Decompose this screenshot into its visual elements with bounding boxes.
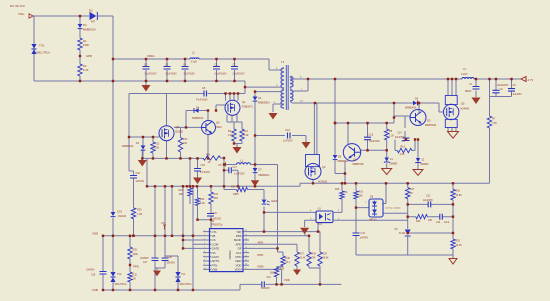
svg-text:APD: APD: [258, 240, 264, 244]
svg-text:40.2K: 40.2K: [456, 244, 463, 247]
svg-text:10: 10: [204, 268, 206, 270]
svg-text:R14: R14: [206, 154, 211, 157]
svg-text:C16: C16: [201, 164, 206, 167]
svg-text:VIN+: VIN+: [18, 12, 25, 16]
svg-text:TV1: TV1: [39, 44, 45, 48]
svg-text:C18: C18: [136, 172, 141, 175]
svg-text:2.2uF/100V: 2.2uF/100V: [233, 73, 245, 75]
svg-text:SMCJ75CA: SMCJ75CA: [180, 283, 192, 286]
svg-text:2.2uF/25V: 2.2uF/25V: [511, 94, 522, 96]
svg-text:10K: 10K: [359, 195, 364, 198]
svg-text:104/50V: 104/50V: [167, 263, 176, 265]
svg-text:C24: C24: [436, 222, 441, 224]
svg-text:R13: R13: [183, 138, 188, 141]
svg-text:63.4: 63.4: [286, 262, 291, 264]
svg-text:104/50V: 104/50V: [86, 270, 95, 272]
svg-text:R17: R17: [410, 188, 415, 191]
svg-text:D1: D1: [89, 9, 93, 13]
svg-text:C26: C26: [91, 275, 96, 277]
svg-text:100K: 100K: [83, 43, 89, 47]
svg-text:3.3uH: 3.3uH: [191, 61, 198, 64]
svg-text:R32: R32: [133, 274, 138, 277]
svg-text:3904: 3904: [216, 126, 222, 129]
svg-text:22uF/100V: 22uF/100V: [184, 73, 196, 75]
svg-text:15: 15: [245, 251, 247, 253]
svg-text:Q2: Q2: [322, 165, 326, 169]
svg-text:R13: R13: [401, 145, 406, 148]
svg-text:SMCJ79CA: SMCJ79CA: [36, 51, 50, 55]
svg-text:SMCJ75CA: SMCJ75CA: [115, 283, 127, 286]
svg-text:1uF/16V: 1uF/16V: [136, 181, 145, 183]
svg-text:0.4R: 0.4R: [228, 135, 233, 137]
svg-text:MMBD914: MMBD914: [83, 28, 96, 32]
svg-text:MMBD914: MMBD914: [405, 107, 417, 110]
svg-text:MMBD914: MMBD914: [259, 175, 271, 177]
svg-text:75K: 75K: [312, 258, 317, 260]
svg-text:Q5: Q5: [461, 102, 465, 106]
svg-text:0.1uF/100V: 0.1uF/100V: [145, 73, 157, 75]
svg-text:Q3: Q3: [176, 125, 180, 129]
svg-text:R21: R21: [179, 189, 184, 192]
svg-text:ABS10: ABS10: [369, 219, 377, 222]
svg-text:0.1uF/25V: 0.1uF/25V: [234, 174, 245, 176]
svg-text:R1: R1: [83, 39, 87, 43]
svg-text:C15: C15: [369, 134, 374, 137]
svg-text:10R: 10R: [179, 193, 184, 196]
svg-text:2K: 2K: [410, 192, 413, 195]
svg-text:1: 1: [204, 230, 205, 232]
svg-text:TP8237Sd: TP8237Sd: [211, 223, 223, 226]
svg-text:T1: T1: [281, 60, 285, 64]
svg-text:104/50V: 104/50V: [140, 258, 149, 260]
svg-text:R33: R33: [280, 268, 285, 271]
svg-text:AO4030: AO4030: [318, 181, 328, 184]
svg-text:SI2302: SI2302: [175, 131, 184, 134]
svg-text:63.4K: 63.4K: [300, 258, 306, 260]
svg-text:VSB: VSB: [92, 288, 98, 292]
svg-text:VSB: VSB: [212, 268, 218, 272]
svg-text:C21: C21: [267, 277, 272, 279]
svg-text:R28: R28: [312, 253, 317, 256]
svg-text:R29: R29: [323, 253, 328, 256]
svg-text:ZMM62: ZMM62: [390, 164, 399, 166]
svg-text:MMBD914: MMBD914: [258, 102, 270, 105]
svg-text:VC: VC: [218, 163, 222, 167]
svg-text:6.2K: 6.2K: [83, 68, 89, 72]
svg-text:VDD: VDD: [284, 278, 290, 282]
svg-text:VDDi: VDDi: [257, 264, 264, 268]
svg-text:680uF: 680uF: [465, 91, 472, 93]
svg-text:8: 8: [204, 260, 205, 262]
svg-text:VDDI: VDDI: [235, 268, 242, 272]
svg-text:VDDx: VDDx: [147, 54, 155, 58]
svg-text:R20: R20: [231, 186, 236, 189]
svg-text:0.4R: 0.4R: [244, 135, 249, 137]
svg-text:1.5K: 1.5K: [200, 202, 205, 205]
svg-text:2: 2: [204, 234, 205, 236]
svg-text:MMBD914: MMBD914: [192, 117, 204, 120]
svg-text:TL431: TL431: [399, 232, 406, 235]
svg-text:47uF/200V: 47uF/200V: [196, 99, 208, 102]
svg-text:22uF/50V: 22uF/50V: [370, 140, 381, 143]
svg-text:49R: 49R: [214, 197, 219, 200]
svg-text:R10: R10: [244, 130, 249, 133]
svg-text:FDB2671: FDB2671: [242, 105, 254, 109]
svg-text:MMBD914: MMBD914: [338, 161, 350, 163]
svg-text:PWM8D: PWM8D: [229, 250, 232, 259]
svg-text:1R: 1R: [133, 278, 136, 281]
svg-text:17: 17: [245, 243, 247, 245]
svg-text:22uF/100V: 22uF/100V: [166, 73, 178, 75]
svg-text:ZMM62: ZMM62: [421, 164, 430, 166]
svg-text:MMBD914: MMBD914: [122, 145, 134, 148]
svg-text:R22: R22: [200, 198, 205, 201]
svg-text:R26: R26: [133, 249, 138, 252]
svg-text:R12: R12: [155, 143, 160, 146]
svg-text:Q3: Q3: [427, 119, 431, 123]
svg-text:Q4: Q4: [216, 121, 220, 125]
svg-text:10nF: 10nF: [444, 222, 450, 224]
svg-text:100K: 100K: [133, 253, 139, 256]
svg-text:5: 5: [204, 247, 205, 249]
svg-text:C23: C23: [361, 232, 366, 235]
svg-text:47uF/16V: 47uF/16V: [200, 172, 210, 174]
svg-text:9: 9: [204, 264, 205, 266]
svg-text:TV2: TV2: [117, 273, 122, 276]
svg-text:4.7V: 4.7V: [528, 78, 534, 82]
svg-text:10K: 10K: [428, 219, 433, 222]
svg-text:LED4: LED4: [271, 200, 278, 203]
svg-text:C28: C28: [168, 257, 173, 259]
svg-text:common cathode: common cathode: [385, 207, 401, 210]
svg-text:0.1uF/100V: 0.1uF/100V: [215, 73, 227, 75]
svg-text:3: 3: [204, 239, 205, 241]
svg-text:1.3K: 1.3K: [389, 135, 394, 138]
svg-text:Q6: Q6: [353, 158, 357, 162]
svg-text:7.5K: 7.5K: [492, 122, 497, 125]
svg-text:C17: C17: [233, 166, 238, 169]
svg-text:VDD: VDD: [92, 232, 98, 236]
svg-text:3.9K: 3.9K: [400, 153, 405, 156]
svg-text:1nF/2KV: 1nF/2KV: [283, 140, 293, 143]
svg-text:69.8K: 69.8K: [323, 258, 329, 260]
svg-text:2K: 2K: [345, 191, 348, 194]
svg-text:19: 19: [245, 234, 247, 236]
svg-text:R18: R18: [456, 190, 461, 193]
svg-text:DC 36-72V: DC 36-72V: [10, 4, 25, 8]
svg-text:R19: R19: [214, 193, 219, 196]
svg-text:1N4148: 1N4148: [118, 215, 127, 218]
svg-text:D10: D10: [118, 211, 123, 214]
svg-text:C21: C21: [426, 195, 431, 198]
svg-text:R27: R27: [300, 253, 305, 256]
svg-text:1.2R: 1.2R: [137, 213, 142, 216]
svg-text:M7: M7: [91, 20, 95, 24]
svg-text:MMBTA06: MMBTA06: [425, 124, 437, 127]
svg-text:49.9K: 49.9K: [456, 194, 463, 197]
svg-text:14: 14: [245, 255, 247, 257]
svg-text:22uF/25V: 22uF/25V: [423, 200, 433, 202]
svg-text:D4: D4: [83, 23, 87, 27]
svg-text:4: 4: [204, 243, 205, 245]
svg-text:R16: R16: [359, 191, 364, 194]
svg-text:C14: C14: [397, 132, 402, 135]
svg-text:10K: 10K: [183, 142, 188, 145]
svg-text:11: 11: [245, 268, 247, 270]
svg-text:Q1: Q1: [242, 100, 246, 104]
svg-text:R20: R20: [137, 209, 142, 212]
svg-text:C27: C27: [143, 262, 148, 264]
svg-text:VC: VC: [161, 221, 165, 225]
svg-text:360K: 360K: [270, 273, 276, 275]
svg-text:TV1: TV1: [181, 273, 186, 276]
svg-text:104/2KV: 104/2KV: [261, 288, 270, 290]
svg-text:D2: D2: [258, 96, 262, 100]
svg-text:PPD: PPD: [133, 265, 139, 269]
svg-text:49R9: 49R9: [233, 194, 239, 196]
svg-text:MMBTA06: MMBTA06: [353, 163, 365, 166]
svg-text:20: 20: [245, 230, 247, 232]
svg-text:100uF/25V: 100uF/25V: [497, 85, 509, 87]
svg-text:PPD: PPD: [258, 253, 264, 257]
svg-text:817: 817: [318, 223, 323, 226]
svg-text:12: 12: [245, 264, 247, 266]
svg-text:C22: C22: [213, 212, 218, 215]
svg-text:C10: C10: [285, 128, 290, 132]
svg-text:18: 18: [245, 239, 247, 241]
svg-text:AO4490: AO4490: [460, 108, 470, 111]
svg-text:1nF/50V: 1nF/50V: [360, 238, 369, 240]
svg-text:2.2uH: 2.2uH: [461, 73, 468, 76]
svg-text:APD: APD: [86, 54, 93, 58]
svg-text:R30: R30: [286, 257, 291, 260]
svg-text:16: 16: [245, 247, 247, 249]
svg-text:13: 13: [245, 260, 247, 262]
svg-text:R15: R15: [335, 188, 340, 191]
svg-text:R2: R2: [83, 64, 87, 68]
svg-text:7: 7: [204, 255, 205, 257]
svg-text:R24: R24: [416, 220, 421, 223]
svg-text:1K: 1K: [208, 161, 211, 164]
svg-text:R25: R25: [456, 240, 461, 243]
svg-text:22uF/50V: 22uF/50V: [395, 137, 405, 139]
svg-text:6: 6: [204, 251, 205, 253]
svg-text:10K: 10K: [155, 147, 160, 150]
